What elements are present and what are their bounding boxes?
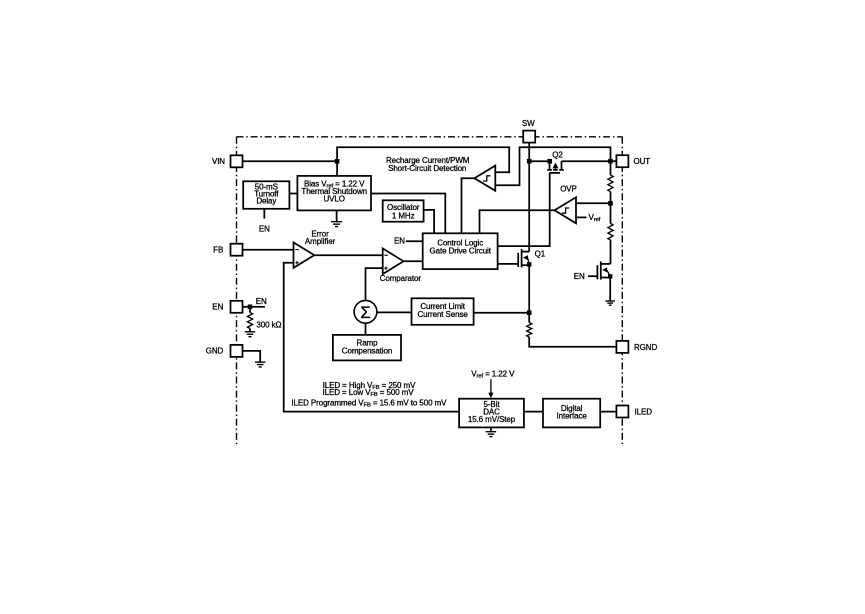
block Bias Vref Thermal Shutdown UVLO bbox=[297, 176, 371, 211]
pin FB bbox=[231, 244, 243, 256]
resistor R4 current sense bbox=[527, 323, 532, 337]
wire DAC to Digital Interface bbox=[524, 411, 543, 413]
wire VIN junction down to Bias block bbox=[336, 161, 338, 176]
svg-text:GND: GND bbox=[206, 347, 224, 356]
pin OUT bbox=[616, 155, 628, 167]
wire EN stub under 50-mS block bbox=[263, 209, 265, 219]
wire current sense node to resistor R4 bbox=[528, 313, 530, 323]
svg-text:Current Sense: Current Sense bbox=[417, 310, 468, 319]
wire EN stub into control logic bbox=[406, 240, 423, 242]
wire EN stub bbox=[250, 306, 265, 308]
node Q2 source tie bbox=[547, 159, 552, 164]
block Current Limit Current Sense bbox=[412, 298, 474, 325]
svg-text:SW: SW bbox=[522, 119, 535, 128]
svg-text:300 kΩ: 300 kΩ bbox=[256, 320, 281, 329]
svg-text:OVP: OVP bbox=[560, 184, 577, 193]
svg-text:EN: EN bbox=[259, 225, 270, 234]
resistor R2 (OVP divider bottom) bbox=[608, 224, 613, 241]
svg-text:Interface: Interface bbox=[556, 412, 587, 421]
pin VIN bbox=[231, 155, 243, 167]
wire comparator - input from summing node bbox=[366, 268, 383, 300]
block 5-Bit DAC 15.6 mV/Step bbox=[459, 399, 524, 428]
wire SW pin down to Q1 drain bbox=[528, 143, 530, 252]
node OVP divider tap bbox=[608, 201, 613, 206]
block Control Logic Gate Drive Circuit bbox=[423, 233, 498, 269]
node EN junction bbox=[248, 305, 253, 310]
pin RGND bbox=[616, 341, 628, 353]
ground under DAC bbox=[486, 431, 497, 433]
wire Bias block output to control logic bbox=[371, 194, 445, 234]
svg-text:15.6 mV/Step: 15.6 mV/Step bbox=[468, 415, 516, 424]
wire Vref stub into OVP comparator bbox=[576, 216, 587, 218]
resistor R3 300 k&#937; bbox=[247, 313, 252, 329]
wire divider tap down to resistor R2 bbox=[610, 203, 612, 223]
node current sense junction bbox=[527, 310, 532, 315]
pin ILED bbox=[616, 406, 628, 418]
svg-text:Σ: Σ bbox=[360, 303, 371, 322]
block Ramp Compensation bbox=[333, 335, 401, 361]
wire divider tap to OVP comparator input bbox=[576, 202, 611, 204]
wire 50-mS block to Bias block bbox=[289, 193, 297, 195]
ground under Bias block bbox=[331, 221, 342, 223]
svg-text:ILED = Low VFB = 500 mV: ILED = Low VFB = 500 mV bbox=[323, 388, 415, 398]
wire R2 to EN transistor drain bbox=[610, 240, 612, 264]
svg-text:RGND: RGND bbox=[634, 343, 657, 352]
wire Oscillator to control logic bbox=[424, 210, 435, 233]
wire R1 to divider node bbox=[610, 192, 612, 204]
wire EN junction down to resistor R3 bbox=[249, 307, 251, 313]
wire R4 to RGND pin bbox=[529, 337, 616, 347]
transistor EN NMOS (OVP divider disable) bbox=[588, 261, 612, 279]
wire VIN pin to junction bbox=[243, 160, 338, 162]
svg-text:1 MHz: 1 MHz bbox=[392, 212, 415, 221]
wire SW junction to Q2 source bbox=[529, 160, 549, 162]
wire EN NMOS source to ground bbox=[609, 278, 611, 301]
node SW junction bbox=[527, 159, 532, 164]
ground under R3 bbox=[245, 331, 256, 333]
svg-text:Amplifier: Amplifier bbox=[305, 237, 336, 246]
wire FB pin to error amplifier - input bbox=[243, 249, 294, 251]
svg-text:Compensation: Compensation bbox=[342, 347, 392, 356]
node OUT junction bbox=[608, 159, 613, 164]
ground at GND pin bbox=[255, 361, 266, 363]
pin GND bbox=[231, 345, 243, 357]
wire control logic to Q2 gate bbox=[498, 173, 550, 246]
svg-text:ILED: ILED bbox=[635, 408, 653, 417]
resistor R1 (OVP divider top) bbox=[608, 175, 613, 192]
wire summing node to current limit block bbox=[377, 311, 412, 313]
op-amp recharge/short-circuit comparator U2 bbox=[474, 166, 495, 191]
wire Q2 drain to OUT node bbox=[562, 160, 611, 162]
op-amp error amplifier bbox=[294, 242, 315, 268]
wire error amplifier output to comparator bbox=[314, 254, 382, 256]
wire current limit block to Q1 source node bbox=[474, 312, 530, 314]
svg-text:EN: EN bbox=[394, 237, 405, 246]
ground under EN NMOS bbox=[605, 300, 615, 302]
wire comparator output to control logic bbox=[404, 260, 423, 262]
svg-text:Gate Drive Circuit: Gate Drive Circuit bbox=[430, 247, 492, 256]
pin EN bbox=[231, 301, 243, 313]
op-amp PWM comparator bbox=[383, 248, 404, 274]
transistor Q1 power NMOS bbox=[498, 249, 532, 267]
wire OUT sense to recharge comparator - input bbox=[495, 147, 610, 185]
wire OVP output to control logic bbox=[480, 210, 555, 233]
svg-text:OUT: OUT bbox=[634, 157, 651, 166]
svg-text:UVLO: UVLO bbox=[324, 194, 345, 203]
block 50-mS Turnoff Delay bbox=[243, 181, 289, 209]
svg-text:Q2: Q2 bbox=[552, 150, 563, 159]
wire OUT node to OUT pin bbox=[611, 160, 617, 162]
svg-text:FB: FB bbox=[213, 245, 223, 254]
wire summing node to ramp compensation bbox=[365, 323, 367, 335]
svg-text:EN: EN bbox=[212, 302, 223, 311]
wire OUT node down to resistor R1 bbox=[610, 161, 612, 175]
wire Q1 source down to current sense node bbox=[528, 265, 530, 313]
svg-text:EN: EN bbox=[574, 272, 585, 281]
node VIN junction bbox=[335, 159, 340, 164]
wire GND pin to ground bbox=[243, 351, 261, 362]
svg-text:Delay: Delay bbox=[256, 197, 276, 206]
svg-text:VIN: VIN bbox=[212, 157, 225, 166]
summing node sigma bbox=[354, 300, 377, 323]
svg-text:Comparator: Comparator bbox=[380, 274, 422, 283]
wire EN pin to node bbox=[243, 306, 251, 308]
wire Bias block to ground bbox=[336, 210, 338, 221]
wire DAC to ground bbox=[490, 427, 492, 431]
svg-text:Q1: Q1 bbox=[535, 250, 546, 259]
op-amp OVP comparator U3 bbox=[555, 197, 577, 223]
pin SW bbox=[523, 131, 535, 143]
wire VIN junction up to recharge comparator + input bbox=[337, 147, 509, 172]
wire error amplifier + input from ILED feedback line bbox=[284, 263, 459, 412]
block Digital Interface bbox=[543, 399, 600, 428]
svg-text:EN: EN bbox=[256, 297, 267, 306]
device boundary dash-dot border bbox=[237, 137, 623, 444]
wire recharge comparator output to control logic bbox=[462, 178, 475, 233]
wire Vref arrow into DAC bbox=[490, 379, 492, 394]
wire Digital Interface to ILED pin bbox=[600, 411, 616, 413]
transistor Q2 isolation PMOS bbox=[547, 161, 564, 173]
svg-text:Short-Circuit Detection: Short-Circuit Detection bbox=[388, 164, 466, 173]
wire R3 to ground bbox=[249, 329, 251, 332]
block Oscillator 1 MHz bbox=[383, 200, 424, 221]
